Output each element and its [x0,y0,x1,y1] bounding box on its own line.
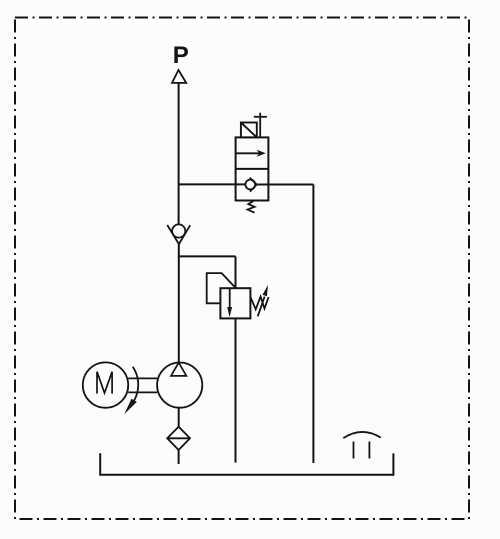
svg-text:P: P [173,42,189,69]
